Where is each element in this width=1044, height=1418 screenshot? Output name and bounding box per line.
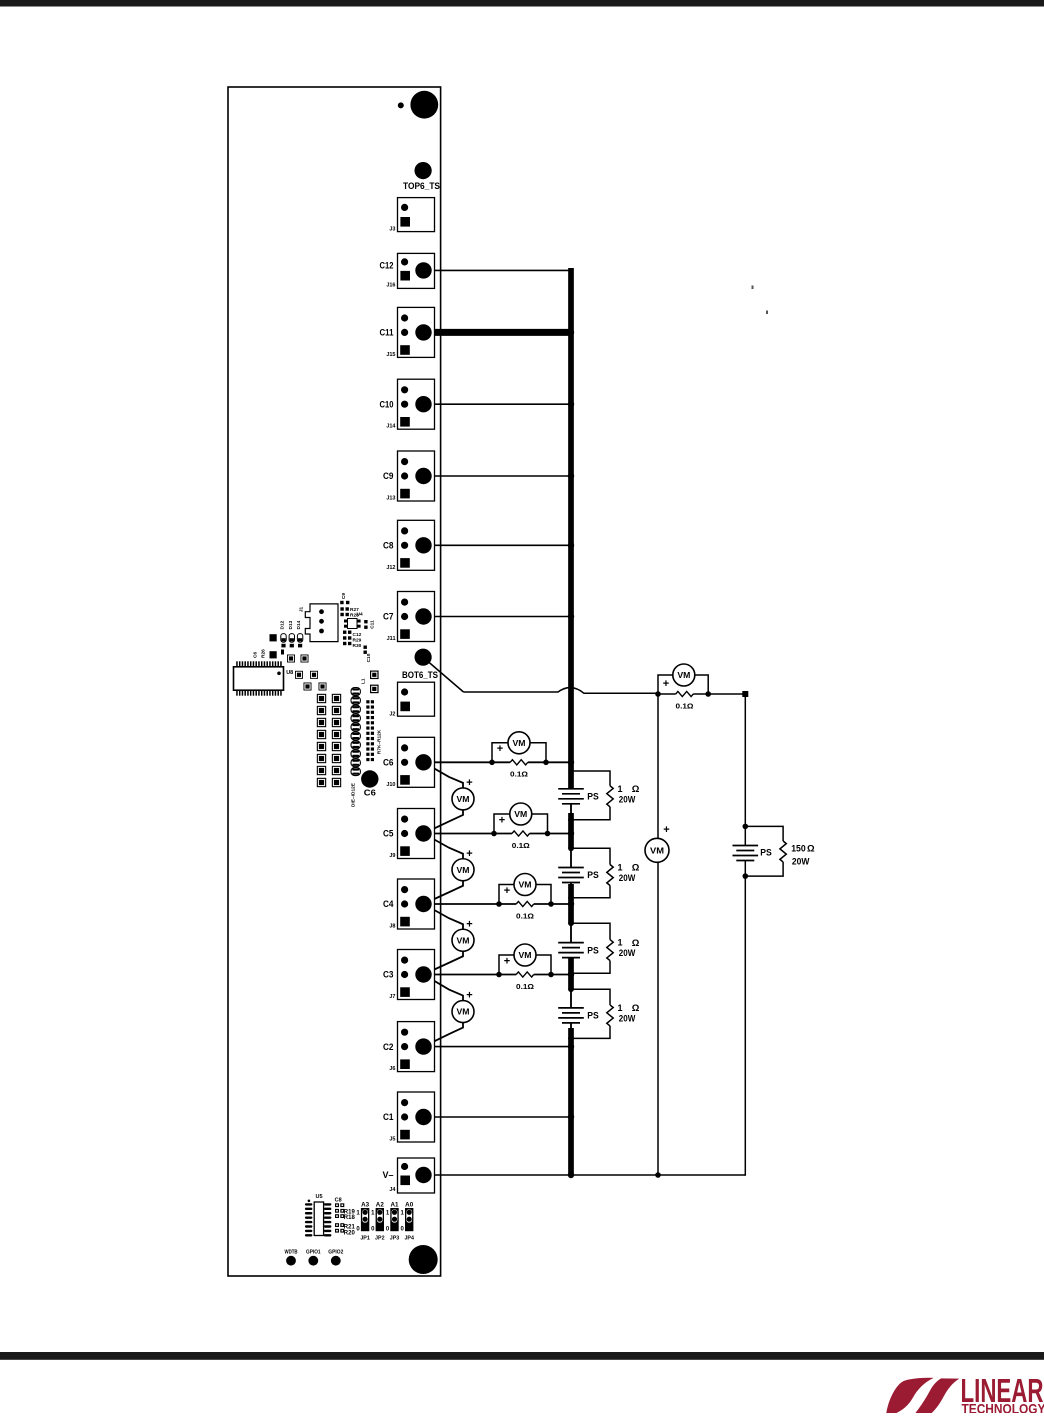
connector C11 (J15) <box>398 307 435 357</box>
voltmeter VM row C6 <box>508 732 530 754</box>
svg-text:L1: L1 <box>361 678 367 684</box>
resistor R3 1 ohm 20W parallel loop <box>571 923 613 973</box>
wire C3 to shunt and stack bus <box>424 974 572 976</box>
svg-text:VM: VM <box>650 846 664 856</box>
inductor L1 <box>370 671 379 694</box>
connector V- (J4) <box>398 1158 435 1193</box>
svg-text:J4: J4 <box>389 1187 396 1193</box>
test point GPIO1 <box>308 1256 318 1266</box>
svg-text:GPIO2: GPIO2 <box>328 1249 343 1255</box>
connector C3 (J7) <box>398 950 435 1000</box>
svg-text:R20: R20 <box>344 1230 356 1236</box>
wire main supply branch top <box>744 694 746 826</box>
svg-text:U4: U4 <box>357 611 363 617</box>
svg-text:C6: C6 <box>383 758 394 768</box>
junction stack bus / C3 <box>568 971 574 977</box>
svg-text:C11: C11 <box>380 328 394 338</box>
svg-text:C1: C1 <box>383 1112 394 1122</box>
stray mark 2 <box>766 311 768 315</box>
svg-text:1: 1 <box>618 938 623 948</box>
wire C6 to shunt and stack bus <box>424 761 572 763</box>
svg-text:C9: C9 <box>341 593 347 599</box>
wire C2 to stack bus <box>424 1046 572 1048</box>
junction main supply top <box>743 824 749 830</box>
wire C5 turret to cell voltmeter <box>424 834 464 859</box>
voltmeter VM row C3 <box>514 944 536 966</box>
svg-text:J12: J12 <box>386 565 395 571</box>
power supply PS2 (battery in stack) <box>558 848 584 898</box>
svg-text:0.1Ω: 0.1Ω <box>512 841 530 850</box>
svg-text:R29: R29 <box>353 637 362 643</box>
junction main supply bottom <box>743 873 749 879</box>
svg-text:C12: C12 <box>353 632 362 638</box>
pad pair 1 <box>287 655 309 663</box>
shunt resistor 0.1 ohm row C4 <box>516 901 534 906</box>
svg-text:+: + <box>497 743 503 755</box>
junction C3 shunt right <box>548 972 554 978</box>
wire main supply branch bottom <box>744 876 746 1176</box>
svg-text:20W: 20W <box>792 856 810 867</box>
mounting hole top <box>410 91 438 119</box>
connector C1 (J5) <box>398 1092 435 1142</box>
diode D12 <box>281 634 286 648</box>
connector C12 (J16) <box>398 253 435 288</box>
junction stack bus / C5 <box>568 830 574 836</box>
junction bus / R2 top <box>568 845 574 851</box>
wire cell voltmeter to C2 turret <box>424 1023 464 1047</box>
svg-text:A3: A3 <box>361 1202 370 1208</box>
wire C12 to stack bus <box>424 269 572 271</box>
svg-text:20W: 20W <box>619 794 636 804</box>
voltmeter VM row C5 <box>510 803 532 825</box>
junction stack bus / C11 <box>568 329 574 335</box>
junction C6 shunt left <box>489 760 495 766</box>
wire total-stack voltmeter branch <box>657 694 659 1175</box>
svg-text:+: + <box>663 824 669 836</box>
svg-text:0.1Ω: 0.1Ω <box>510 770 528 779</box>
turret TOP6_TS <box>415 162 432 179</box>
voltmeter VM top row <box>673 664 695 686</box>
svg-text:Ω: Ω <box>632 1003 640 1014</box>
stack bus thin stub below PS4 <box>570 1023 572 1029</box>
svg-text:+: + <box>663 678 669 690</box>
svg-text:Ω: Ω <box>632 938 640 949</box>
wire C3 turret to cell voltmeter <box>424 975 464 1001</box>
wire BOT6_TS horizontal with hop over bus <box>464 688 659 694</box>
power supply PS4 (battery in stack) <box>558 989 584 1038</box>
connector C6 (J10) <box>398 737 435 787</box>
voltmeter VM total stack <box>645 838 669 862</box>
wire C4 to shunt and stack bus <box>424 903 572 905</box>
svg-text:0.1Ω: 0.1Ω <box>676 701 694 710</box>
svg-text:J11: J11 <box>387 636 396 642</box>
shunt resistor 0.1 ohm row C6 <box>510 760 528 765</box>
via C6 <box>361 770 378 787</box>
wire C6 turret to cell voltmeter <box>424 762 464 788</box>
svg-text:C10: C10 <box>380 399 394 409</box>
junction C6 shunt right <box>543 760 549 766</box>
svg-text:C8: C8 <box>383 541 394 551</box>
voltmeter VM loop row C5 <box>494 814 548 834</box>
svg-text:C5: C5 <box>383 829 394 839</box>
junction C5 shunt left <box>491 831 497 837</box>
svg-text:C10: C10 <box>366 653 372 662</box>
junction stack bus / C9 <box>568 473 574 479</box>
svg-text:C4: C4 <box>383 899 394 909</box>
svg-text:0.1Ω: 0.1Ω <box>516 911 534 920</box>
junction top shunt right <box>705 691 711 697</box>
junction stack bus / V- <box>568 1172 574 1178</box>
svg-text:PS: PS <box>587 1011 599 1021</box>
wire C11 to stack bus (thick) <box>424 329 574 336</box>
svg-text:J2: J2 <box>389 711 395 717</box>
connector J2 (J2) <box>398 682 435 716</box>
svg-text:C8: C8 <box>335 1197 342 1203</box>
junction stack bus / C2 <box>568 1043 574 1049</box>
svg-text:PS: PS <box>587 945 599 955</box>
value label 150 ohm <box>791 843 815 854</box>
junction bus / R4 top <box>568 986 574 992</box>
junction stack bus / C8 <box>568 542 574 548</box>
shunt resistor 0.1 ohm top row <box>658 691 745 696</box>
svg-text:+: + <box>504 955 510 967</box>
svg-text:C9: C9 <box>383 471 394 481</box>
svg-text:D12: D12 <box>280 620 286 629</box>
resistor R18 (bottom smd) <box>335 1214 344 1218</box>
resistor R2 1 ohm 20W parallel loop <box>571 848 613 898</box>
resistor R29 (smd) <box>343 636 351 639</box>
stack bus thick segment 1 (C12 to PS1) <box>568 268 574 788</box>
small pad near R26 <box>281 650 284 655</box>
value label 1 ohm for R1 <box>618 784 640 795</box>
stack bus thick segment 4 <box>568 959 574 990</box>
svg-text:J10: J10 <box>386 782 395 788</box>
svg-text:20W: 20W <box>619 948 636 958</box>
IC U8 <box>234 661 284 695</box>
junction V- / total voltmeter <box>655 1172 661 1178</box>
svg-text:PS: PS <box>587 870 599 880</box>
connector C9 (J13) <box>398 451 435 501</box>
resistor 150 ohm 20W load loop <box>745 826 786 876</box>
jumper JP1 (A3) <box>361 1208 369 1231</box>
jumper JP4 (A0) <box>405 1208 413 1231</box>
resistors R7K-R12K pads <box>366 700 374 761</box>
connector C8 (J12) <box>398 520 435 570</box>
stack bus thick segment 2 <box>568 813 574 849</box>
junction C3 shunt left <box>496 972 502 978</box>
svg-text:+: + <box>466 990 472 1002</box>
resistor pad C8 (bottom smd) <box>335 1203 344 1207</box>
svg-text:+: + <box>504 885 510 897</box>
voltmeter VM cell C5-C4 <box>452 859 474 881</box>
junction top shunt left <box>655 691 661 697</box>
svg-text:J7: J7 <box>389 994 395 1000</box>
svg-text:+: + <box>466 918 472 930</box>
shunt resistor 0.1 ohm row C3 <box>516 972 534 977</box>
svg-text:JP1: JP1 <box>360 1236 370 1242</box>
svg-text:J5: J5 <box>389 1137 395 1143</box>
connector J1 <box>305 604 338 642</box>
junction C4 shunt right <box>548 901 554 907</box>
stack bus thin stub below PS1 <box>570 804 572 814</box>
resistor R30 (smd) <box>343 642 351 645</box>
stray mark 1 <box>752 286 754 290</box>
pad column 2 <box>332 694 341 787</box>
resistor R4 1 ohm 20W parallel loop <box>571 989 613 1038</box>
capacitor C10 (smd) <box>364 646 367 654</box>
svg-text:C12: C12 <box>380 260 394 270</box>
svg-text:1: 1 <box>618 863 623 873</box>
wire C1 to stack bus <box>424 1116 572 1118</box>
stack bus thin stub above PS2 <box>570 848 572 868</box>
svg-text:J13: J13 <box>386 496 395 502</box>
connector C2 (J6) <box>398 1022 435 1072</box>
voltmeter VM cell C3-C2 <box>452 1001 474 1023</box>
junction bus / R2 bottom <box>568 895 574 901</box>
svg-text:JP2: JP2 <box>375 1236 385 1242</box>
voltmeter VM row C4 <box>514 874 536 896</box>
junction bus / R4 bottom <box>568 1036 574 1042</box>
svg-text:+: + <box>466 848 472 860</box>
jumper JP3 (A1) <box>390 1208 398 1231</box>
svg-text:20W: 20W <box>619 1014 636 1024</box>
stack bus thin stub above PS3 <box>570 923 572 943</box>
connector C10 (J14) <box>398 379 435 429</box>
wire C8 to stack bus <box>424 544 572 546</box>
pad column 1 <box>317 694 326 787</box>
PCB board outline <box>228 87 441 1276</box>
pad pair 2 <box>295 671 318 679</box>
svg-text:DIE–ID12E: DIE–ID12E <box>351 782 357 807</box>
power supply PS1 (battery in stack) <box>558 771 584 820</box>
svg-text:GPIO1: GPIO1 <box>306 1249 321 1255</box>
svg-text:WDTB: WDTB <box>285 1249 298 1255</box>
svg-text:A1: A1 <box>391 1202 400 1208</box>
stack bus thick segment 3 <box>568 884 574 924</box>
test point WDTB <box>286 1256 296 1266</box>
svg-text:J8: J8 <box>389 924 395 930</box>
svg-text:JP4: JP4 <box>404 1236 414 1242</box>
junction C4 shunt left <box>496 901 502 907</box>
shunt resistor 0.1 ohm row C5 <box>512 831 530 836</box>
power supply PS main (battery) <box>733 826 759 876</box>
svg-text:Ω: Ω <box>807 844 815 855</box>
fiducial dot top <box>398 102 404 108</box>
svg-text:J3: J3 <box>389 227 395 233</box>
resistor R27 (smd) <box>340 607 349 610</box>
value label 1 ohm for R3 <box>618 938 640 949</box>
stack bus thin stub above PS4 <box>570 989 572 1008</box>
junction bus / R3 bottom <box>568 970 574 976</box>
wire cell voltmeter to C5 turret <box>424 810 464 834</box>
voltmeter VM loop row C3 <box>499 955 551 975</box>
junction stack bus / C7 <box>568 613 574 619</box>
svg-text:PS: PS <box>587 792 599 802</box>
stack bus thin stub below PS2 <box>570 883 572 886</box>
pad pair 3 <box>304 683 327 691</box>
svg-text:U8: U8 <box>286 670 293 676</box>
wire BOT6_TS diagonal <box>425 659 464 693</box>
voltmeter VM cell C4-C3 <box>452 929 474 951</box>
value label 1 ohm for R2 <box>618 863 640 874</box>
top bar <box>0 0 1044 7</box>
connector J3 (J3) <box>398 198 435 232</box>
connector C5 (J9) <box>398 809 435 859</box>
svg-text:A2: A2 <box>376 1202 385 1208</box>
svg-text:+: + <box>499 814 505 826</box>
svg-text:R26: R26 <box>261 649 267 658</box>
svg-text:C7: C7 <box>383 612 394 622</box>
svg-text:1: 1 <box>618 1003 623 1013</box>
resistor R20 (bottom smd) <box>335 1229 344 1233</box>
voltmeter VM loop row C6 <box>492 743 546 763</box>
svg-text:C2: C2 <box>383 1042 394 1052</box>
svg-text:J1: J1 <box>299 607 305 613</box>
svg-text:C6: C6 <box>364 789 377 798</box>
svg-text:J14: J14 <box>386 424 396 430</box>
svg-text:J9: J9 <box>389 853 395 859</box>
svg-text:C11: C11 <box>370 620 376 629</box>
svg-text:PS: PS <box>760 847 772 857</box>
wire C9 to stack bus <box>424 475 572 477</box>
svg-text:JP3: JP3 <box>390 1236 400 1242</box>
junction stack bus / C4 <box>568 901 574 907</box>
resistor barrel column <box>351 688 360 776</box>
svg-text:1: 1 <box>618 784 623 794</box>
capacitor C11 (smd) <box>364 620 367 629</box>
svg-text:J6: J6 <box>389 1066 395 1072</box>
terminal square top right <box>742 691 748 697</box>
resistor R26 pad <box>270 651 277 658</box>
bottom bar <box>0 1352 1044 1360</box>
wire cell voltmeter to C3 turret <box>424 951 464 974</box>
connector C7 (J11) <box>398 592 435 642</box>
resistor R1 1 ohm 20W parallel loop <box>571 771 613 820</box>
diode D14 <box>297 634 302 648</box>
junction stack bus / C1 <box>568 1114 574 1120</box>
resistor R28 (smd) <box>340 613 349 616</box>
voltmeter VM cell C6-C5 <box>452 788 474 810</box>
IC U4 <box>344 619 361 629</box>
turret BOT6_TS <box>415 649 432 666</box>
svg-text:BOT6_TS: BOT6_TS <box>402 670 438 680</box>
jumper JP2 (A2) <box>376 1208 384 1231</box>
junction bus / R1 bottom <box>568 817 574 823</box>
voltmeter VM loop top row <box>658 675 708 694</box>
svg-text:J16: J16 <box>386 283 395 289</box>
svg-text:TOP6_TS: TOP6_TS <box>403 181 440 191</box>
svg-text:A0: A0 <box>405 1202 414 1208</box>
svg-text:R7K–R12K: R7K–R12K <box>377 729 383 754</box>
wire V- net <box>424 1174 746 1176</box>
svg-text:+: + <box>466 777 472 789</box>
power supply PS3 (battery in stack) <box>558 923 584 973</box>
wire cell voltmeter to C4 turret <box>424 881 464 904</box>
svg-text:J15: J15 <box>386 352 395 358</box>
value label 1 ohm for R4 <box>618 1003 640 1014</box>
capacitor C9 (smd) <box>340 601 349 604</box>
svg-text:R30: R30 <box>353 643 362 649</box>
wire C10 to stack bus <box>424 403 572 405</box>
svg-text:D13: D13 <box>288 620 294 629</box>
svg-text:V–: V– <box>383 1170 394 1180</box>
stack bus thick segment 5 (to V-) <box>568 1028 574 1176</box>
diode D13 <box>289 634 294 648</box>
capacitor C6 pad <box>270 634 277 641</box>
svg-text:150: 150 <box>791 843 806 854</box>
svg-text:Ω: Ω <box>632 784 640 795</box>
svg-text:TECHNOLOGY: TECHNOLOGY <box>962 1400 1044 1413</box>
svg-text:C3: C3 <box>383 970 394 980</box>
svg-text:R18: R18 <box>344 1215 356 1221</box>
junction bus / R3 top <box>568 920 574 926</box>
label C6 R26 <box>253 649 267 658</box>
wire C4 turret to cell voltmeter <box>424 904 464 929</box>
IC U5 <box>305 1200 332 1237</box>
junction stack bus / C6 <box>568 759 574 765</box>
mounting hole bottom <box>409 1245 438 1274</box>
svg-text:U5: U5 <box>315 1194 322 1200</box>
junction stack bus / C10 <box>568 401 574 407</box>
resistor R21 (bottom smd) <box>335 1223 344 1227</box>
test point GPIO2 <box>331 1256 341 1266</box>
wire C7 to stack bus <box>424 616 572 618</box>
junction C5 shunt right <box>545 831 551 837</box>
voltmeter VM loop row C4 <box>499 885 551 905</box>
resistor R19 (bottom smd) <box>335 1209 344 1213</box>
wire C5 to shunt and stack bus <box>424 833 572 835</box>
connector C4 (J8) <box>398 879 435 929</box>
svg-text:C6: C6 <box>253 652 259 658</box>
svg-text:20W: 20W <box>619 873 636 883</box>
svg-text:0.1Ω: 0.1Ω <box>516 982 534 991</box>
svg-text:Ω: Ω <box>632 863 640 874</box>
svg-text:D14: D14 <box>296 620 302 629</box>
Linear Technology logo <box>886 1372 1044 1417</box>
capacitor C12 (smd) <box>343 631 351 634</box>
